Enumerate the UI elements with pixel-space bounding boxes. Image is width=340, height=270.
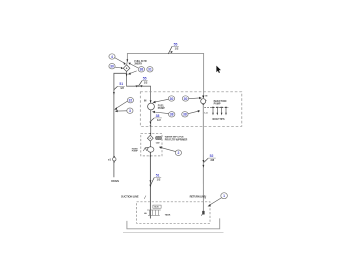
svg-text:32: 32	[129, 99, 133, 103]
arrow on top wire	[127, 59, 129, 62]
fuel tank dashed box	[137, 202, 210, 224]
callout 30 filter	[109, 63, 123, 69]
svg-text:PUMP: PUMP	[214, 103, 221, 106]
svg-text:55: 55	[143, 76, 147, 80]
wire drain branch	[114, 73, 127, 177]
tank strainer	[147, 210, 161, 215]
water separator dashed box	[141, 133, 162, 156]
callout 38 fuel pump outlet	[152, 111, 175, 117]
callout 30 injection pump	[182, 96, 202, 101]
callout 1 fuel tank	[208, 193, 228, 207]
svg-text:1/2: 1/2	[175, 47, 179, 51]
junction dot engine box crossing	[150, 125, 151, 126]
svg-text:NOZZ TIPS: NOZZ TIPS	[213, 119, 225, 121]
callout 38 filter	[128, 63, 145, 75]
svg-text:4: 4	[111, 55, 113, 59]
hose connector 55 pump inlet	[138, 81, 147, 87]
svg-text:38: 38	[183, 113, 187, 117]
arrow suction line lower	[150, 185, 152, 188]
svg-text:52: 52	[210, 154, 214, 158]
port tick injection pump	[205, 99, 208, 102]
svg-text:DRAIN: DRAIN	[111, 180, 119, 183]
junction dot injection pump outlet	[202, 103, 204, 105]
return pipe outlet in tank	[201, 211, 204, 216]
arrow into injection pump	[202, 96, 204, 99]
svg-text:30: 30	[170, 97, 174, 101]
secondary fuel filter diamond	[123, 65, 130, 72]
return label tick	[205, 196, 206, 199]
svg-text:38: 38	[156, 114, 160, 118]
svg-text:51: 51	[156, 173, 160, 177]
hand pump	[143, 147, 154, 152]
svg-text:SUCTION LINE: SUCTION LINE	[121, 195, 139, 199]
svg-text:1: 1	[223, 194, 225, 198]
junction dot hand pump top	[150, 146, 152, 148]
hose connector 52 return	[204, 158, 216, 162]
callout 2 water separator	[159, 146, 182, 155]
svg-text:3: 3	[129, 109, 131, 113]
wire suction line	[149, 152, 151, 218]
arrow below filter	[126, 74, 128, 77]
svg-text:IN: IN	[144, 99, 147, 102]
injector arrows	[212, 113, 227, 116]
junction dot water sep box top	[150, 133, 151, 134]
arrow into fuel pump	[150, 100, 152, 103]
svg-text:51: 51	[119, 82, 123, 86]
arrow return line lower	[203, 165, 205, 168]
hose connector 51 suction	[151, 177, 161, 184]
wire filter to fuel pump	[127, 71, 151, 102]
svg-text:SCN: SCN	[154, 207, 159, 209]
water separator diamond	[147, 135, 153, 141]
wire water sep to hand pump	[149, 141, 151, 146]
suction label tick	[144, 196, 146, 199]
injector caps	[212, 106, 227, 108]
fuel pump circle	[148, 103, 155, 110]
svg-text:PRI FLTR W/PRIMER: PRI FLTR W/PRIMER	[165, 140, 188, 142]
hose connector 51 drain	[114, 86, 125, 89]
junction dot water sep box bottom	[150, 155, 151, 156]
arrow suction line upper	[150, 180, 152, 183]
arrow return line upper	[203, 160, 205, 163]
callout 3 drain	[115, 108, 133, 113]
svg-text:31: 31	[148, 68, 152, 72]
callout 38 injection pump inlet	[182, 110, 201, 117]
svg-text:1/2: 1/2	[120, 86, 124, 90]
svg-text:PUMP: PUMP	[158, 107, 165, 110]
hose connector 38 pump outlet	[151, 118, 162, 121]
svg-text:PUMP: PUMP	[132, 151, 139, 153]
injector drop lines	[213, 108, 226, 113]
svg-text:3/8: 3/8	[210, 158, 214, 162]
injection pump circle	[201, 99, 206, 104]
svg-text:38: 38	[170, 113, 174, 117]
svg-text:1/2: 1/2	[144, 80, 148, 84]
svg-text:2: 2	[177, 151, 179, 155]
callout 32 drain	[114, 98, 133, 110]
svg-text:RETURN LINE: RETURN LINE	[190, 195, 206, 199]
injector gallery dashed line	[204, 106, 228, 108]
engine dashed box	[140, 92, 242, 127]
mouse cursor	[216, 66, 221, 73]
callout 30 fuel pump	[153, 96, 175, 104]
svg-text:2NDRY: 2NDRY	[134, 63, 142, 66]
arrow below fuel pump	[150, 122, 152, 125]
junction dot hand pump bottom	[150, 152, 151, 153]
svg-text:55: 55	[174, 42, 178, 46]
tank screen label box	[153, 205, 161, 208]
wire fuel pump to water separator	[150, 110, 152, 135]
svg-text:WATER SEP & FUE: WATER SEP & FUE	[165, 136, 184, 139]
hose connector 55 top	[168, 46, 179, 54]
svg-text:TANK: TANK	[165, 214, 171, 217]
frame shadow line	[123, 232, 224, 234]
frame bracket	[127, 218, 220, 228]
primer check valves	[156, 136, 162, 139]
svg-text:30: 30	[184, 97, 188, 101]
arrow drain line upper	[113, 92, 115, 95]
wire return line to tank	[202, 104, 204, 212]
svg-text:30: 30	[110, 65, 114, 69]
callout 4	[109, 54, 126, 65]
svg-text:1/2: 1/2	[157, 118, 161, 122]
svg-text:e1: e1	[108, 157, 111, 161]
callout 31 filter	[147, 67, 153, 72]
svg-text:38: 38	[140, 68, 144, 72]
svg-text:1/2: 1/2	[157, 177, 161, 181]
drain valve e1	[113, 156, 116, 163]
wire return line top (injection pump to filter)	[127, 53, 204, 96]
